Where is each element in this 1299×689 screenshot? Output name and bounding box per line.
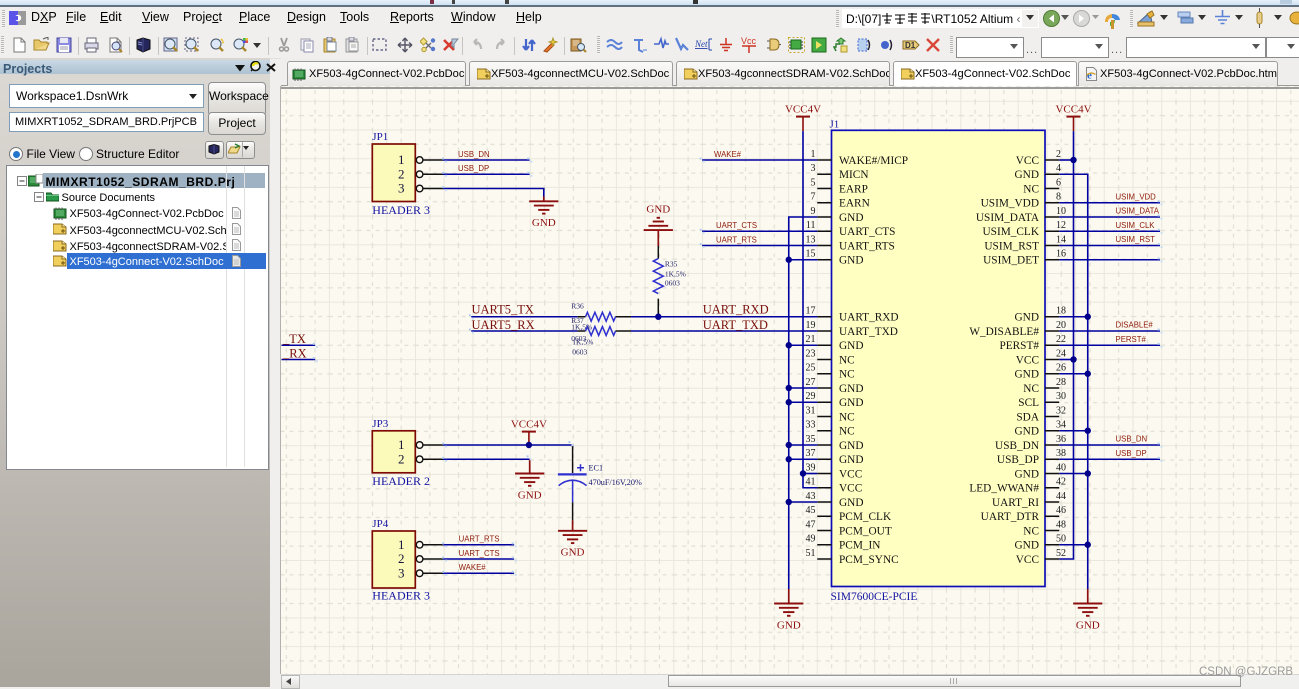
junction R35/UART_RXD	[655, 314, 661, 320]
pin 23 (NC) left stub	[806, 348, 855, 366]
svg-text:13: 13	[806, 234, 816, 245]
left panel	[0, 58, 270, 687]
svg-text:VCC: VCC	[1016, 554, 1039, 566]
wire left GND bus	[789, 217, 818, 589]
net label UART_RTS (JP4)	[459, 535, 500, 544]
wire GND pin row 19 to right bus	[1059, 430, 1088, 432]
wire PERST# (right row 13)	[1059, 344, 1160, 346]
svg-text:GND: GND	[839, 212, 863, 224]
wire UART_CTS (J1.11)	[702, 230, 817, 232]
net label UART_RXD	[703, 302, 769, 316]
pin 48 (NC) right stub	[1023, 519, 1066, 537]
pin 40 (GND) right stub	[1015, 462, 1066, 480]
svg-text:0603: 0603	[665, 279, 680, 288]
svg-text:GND: GND	[1015, 468, 1039, 480]
svg-text:GND: GND	[839, 497, 863, 509]
wire USIM_DET (right row 7)	[1059, 259, 1160, 261]
wire hotspot markers	[1031, 195, 1299, 613]
svg-text:VCC4V: VCC4V	[1055, 103, 1091, 115]
svg-text:USIM_VDD: USIM_VDD	[1116, 192, 1157, 201]
svg-text:MICN: MICN	[839, 169, 869, 181]
wire UART_RTS (J1.13)	[702, 245, 817, 247]
svg-text:NC: NC	[1023, 525, 1039, 537]
net label USIM_RST	[1116, 235, 1156, 244]
pin 28 (NC) right stub	[1023, 377, 1066, 395]
net label WAKE#	[714, 150, 742, 159]
wire JP3.1 to EC1	[443, 445, 573, 447]
svg-text:WAKE#: WAKE#	[459, 563, 487, 572]
svg-text:32: 32	[1056, 405, 1066, 416]
wire USIM_VDD (right row 3)	[1059, 202, 1160, 204]
svg-text:UART_RTS: UART_RTS	[716, 235, 757, 244]
pin 41 (VCC) left stub	[806, 477, 863, 495]
wire DISABLE# (right row 12)	[1059, 330, 1160, 332]
wire right VCC bus	[1059, 131, 1073, 559]
svg-text:48: 48	[1056, 519, 1066, 530]
pin 1 (WAKE#/MICP) left stub	[811, 149, 909, 167]
svg-text:2: 2	[1056, 149, 1061, 160]
horizontal scrollbar	[281, 674, 1299, 688]
net label USIM_CLK	[1116, 221, 1156, 230]
wire GND pin row 11 to right bus	[1059, 316, 1088, 318]
net label UART_TXD	[703, 318, 768, 332]
wire UART5_RX segment	[471, 330, 577, 332]
svg-text:UART_TXD: UART_TXD	[839, 326, 898, 338]
svg-text:1K,5%: 1K,5%	[572, 337, 593, 346]
svg-text:SCL: SCL	[1018, 397, 1039, 409]
pin 10 (USIM_DATA) right stub	[976, 206, 1066, 224]
net label RX cut label	[282, 346, 307, 360]
wire WAKE# (JP4.3)	[443, 572, 514, 574]
pin 3 of JP4	[398, 565, 443, 580]
ground GND (JP1)	[529, 201, 558, 229]
svg-text:_RX: _RX	[282, 346, 307, 360]
resistor R37	[577, 327, 631, 336]
svg-text:36: 36	[1056, 434, 1066, 445]
ground GND (EC1)	[558, 531, 587, 559]
pin 36 (USB_DN) right stub	[995, 434, 1066, 452]
connector JP1 body	[372, 144, 415, 202]
pin 1 of JP1	[398, 152, 443, 167]
svg-text:GND: GND	[1015, 369, 1039, 381]
wire GND pin row 13 to bus	[789, 344, 818, 346]
menu items	[31, 10, 57, 24]
resistor R35	[653, 246, 663, 317]
ground stem R35	[657, 230, 659, 246]
svg-text:43: 43	[806, 491, 816, 502]
svg-text:UART_RXD: UART_RXD	[839, 312, 899, 324]
pin 4 (GND) right stub	[1015, 163, 1061, 181]
svg-text:26: 26	[1056, 363, 1066, 374]
svg-text:46: 46	[1056, 505, 1066, 516]
pin 32 (SDA) right stub	[1016, 405, 1066, 423]
svg-text:21: 21	[806, 334, 816, 345]
svg-text:2: 2	[398, 166, 405, 181]
svg-text:UART_CTS: UART_CTS	[716, 221, 757, 230]
wire USB_DN (right row 20)	[1059, 444, 1160, 446]
pin 47 (PCM_OUT) left stub	[806, 519, 892, 537]
pin 19 (UART_TXD) left stub	[806, 320, 898, 338]
junction VCC4V/JP3.1	[526, 442, 532, 448]
wire GND pin row 7 to bus	[789, 259, 818, 261]
power port VCC4V (right) VCC4V	[1055, 103, 1091, 131]
power port VCC4V (JP3) VCC4V	[511, 418, 547, 445]
svg-text:33: 33	[806, 420, 816, 431]
svg-text:UART_RXD: UART_RXD	[703, 302, 769, 316]
value label SIM7600CE-PCIE	[831, 591, 918, 603]
pin 2 of JP3	[398, 451, 443, 466]
pin 18 (GND) right stub	[1015, 306, 1066, 324]
svg-text:UART_TXD: UART_TXD	[703, 318, 768, 332]
svg-text:GND: GND	[532, 217, 556, 229]
junction left GND bus row 13	[786, 342, 792, 348]
power port VCC4V (left) VCC4V	[785, 103, 821, 131]
svg-text:GND: GND	[1015, 312, 1039, 324]
svg-text:JP3: JP3	[372, 418, 388, 430]
wire UART5_TX stub at left edge	[282, 344, 316, 346]
svg-text:VCC: VCC	[839, 468, 862, 480]
svg-text:PCM_IN: PCM_IN	[839, 540, 880, 552]
pin 1 of JP3	[398, 437, 443, 452]
svg-text:30: 30	[1056, 391, 1066, 402]
tab bar	[281, 58, 1299, 86]
wire VCC pin 2 to bus	[1059, 159, 1073, 161]
svg-text:D1: D1	[905, 41, 916, 50]
pin 33 (NC) left stub	[806, 420, 855, 438]
svg-text:38: 38	[1056, 448, 1066, 459]
svg-text:1: 1	[811, 149, 816, 160]
pin 29 (GND) left stub	[806, 391, 864, 409]
pin 21 (GND) left stub	[806, 334, 864, 352]
wire JP1.3 to GND	[443, 189, 544, 197]
svg-text:1: 1	[398, 537, 405, 552]
svg-text:GND: GND	[646, 204, 670, 216]
wire USIM_RST (right row 6)	[1059, 245, 1160, 247]
svg-text:49: 49	[806, 534, 816, 545]
wire UART_TXD segment	[631, 330, 817, 332]
junction right GND bus row 22	[1085, 470, 1091, 476]
svg-text:GND: GND	[518, 489, 542, 501]
wire GND pin row 27 to right bus	[1059, 544, 1088, 546]
net label USB_DN	[1116, 435, 1148, 444]
svg-text:USB_DN: USB_DN	[995, 440, 1039, 452]
svg-text:NC: NC	[839, 411, 855, 423]
wire WAKE# (J1.1)	[702, 159, 817, 161]
wire USB_DP (JP1.2)	[443, 173, 530, 175]
pin 25 (NC) left stub	[806, 363, 855, 381]
svg-text:Vcc: Vcc	[741, 36, 757, 46]
svg-text:14: 14	[1056, 234, 1066, 245]
wire hotspot markers	[313, 158, 1163, 576]
wire right GND bus	[1059, 174, 1088, 589]
svg-text:R36: R36	[571, 302, 584, 311]
wire JP3.2 to GND	[443, 458, 530, 460]
svg-text:2: 2	[398, 551, 405, 566]
svg-text:44: 44	[1056, 491, 1066, 502]
R35 value labels	[665, 259, 686, 287]
svg-text:SDA: SDA	[1016, 411, 1039, 423]
svg-text:VCC4V: VCC4V	[511, 418, 547, 430]
value label HEADER 3	[372, 203, 430, 217]
svg-text:GND: GND	[561, 547, 585, 559]
svg-text:UART5_RX: UART5_RX	[472, 318, 535, 332]
pin 49 (PCM_IN) left stub	[806, 534, 881, 552]
svg-text:VCC: VCC	[1016, 354, 1039, 366]
svg-text:JP1: JP1	[372, 131, 388, 143]
EC1 labels	[589, 463, 642, 487]
svg-text:3: 3	[398, 565, 405, 580]
svg-text:GND: GND	[1015, 426, 1039, 438]
wire VCC pin 24 to bus	[1059, 359, 1073, 361]
svg-text:23: 23	[806, 348, 816, 359]
svg-text:18: 18	[1056, 306, 1066, 317]
svg-text:3: 3	[811, 163, 816, 174]
svg-text:UART5_TX: UART5_TX	[472, 302, 534, 316]
wire hotspot markers	[545, 195, 1299, 613]
svg-text:GND: GND	[839, 340, 863, 352]
svg-text:USB_DP: USB_DP	[458, 164, 489, 173]
svg-text:52: 52	[1056, 548, 1066, 559]
junction left GND bus row 24	[786, 499, 792, 505]
svg-text:GND: GND	[1015, 169, 1039, 181]
pin 12 (USIM_CLK) right stub	[983, 220, 1067, 238]
svg-text:1K,5%: 1K,5%	[571, 322, 592, 331]
svg-text:GND: GND	[777, 619, 801, 631]
svg-text:SIM7600CE-PCIE: SIM7600CE-PCIE	[831, 591, 918, 603]
svg-text:_TX: _TX	[282, 332, 306, 346]
svg-text:50: 50	[1056, 534, 1066, 545]
pin 30 (SCL) right stub	[1018, 391, 1066, 409]
svg-text:1: 1	[398, 152, 405, 167]
ground GND (bottom left)	[774, 604, 803, 632]
pin 8 (USIM_VDD) right stub	[981, 192, 1061, 210]
designator JP4	[372, 518, 388, 530]
svg-text:3: 3	[398, 181, 405, 196]
pin 38 (USB_DP) right stub	[997, 448, 1066, 466]
svg-text:40: 40	[1056, 462, 1066, 473]
wire GND pin row 22 to right bus	[1059, 473, 1088, 475]
svg-text:UART_CTS: UART_CTS	[839, 226, 895, 238]
svg-text:USIM_VDD: USIM_VDD	[981, 198, 1039, 210]
svg-text:USIM_RST: USIM_RST	[1116, 235, 1156, 244]
net label USB_DN	[458, 150, 490, 159]
net label UART_CTS (JP4)	[459, 549, 500, 558]
wire USB_DN (JP1.1)	[443, 159, 530, 161]
net label USIM_DATA	[1116, 207, 1160, 216]
wire UART5_TX segment	[471, 316, 577, 318]
junction left VCC bus pin39	[800, 470, 806, 476]
svg-text:GND: GND	[839, 383, 863, 395]
pin 22 (PERST#) right stub	[999, 334, 1066, 352]
pin 42 (LED_WWAN#) right stub	[969, 477, 1066, 495]
IC U/J1 SIM7600CE-PCIE body	[832, 130, 1046, 586]
svg-text:1K,5%: 1K,5%	[665, 269, 686, 278]
svg-text:EARN: EARN	[839, 198, 870, 210]
svg-text:35: 35	[806, 434, 816, 445]
pin 52 (VCC) right stub	[1016, 548, 1066, 566]
svg-text:PERST#: PERST#	[1116, 335, 1147, 344]
pin 3 (MICN) left stub	[811, 163, 869, 181]
pin 51 (PCM_SYNC) left stub	[806, 548, 899, 566]
pin 24 (VCC) right stub	[1016, 348, 1066, 366]
svg-text:5: 5	[811, 177, 816, 188]
svg-text:PERST#: PERST#	[999, 340, 1039, 352]
svg-text:PCM_SYNC: PCM_SYNC	[839, 554, 899, 566]
pin 7 (EARN) left stub	[811, 192, 870, 210]
ground stem bottom-right	[1087, 589, 1089, 604]
svg-text:VCC4V: VCC4V	[785, 103, 821, 115]
pin 1 of JP4	[398, 537, 443, 552]
svg-text:4: 4	[1056, 163, 1061, 174]
svg-text:GND: GND	[1015, 540, 1039, 552]
svg-text:27: 27	[806, 377, 816, 388]
svg-text:25: 25	[806, 363, 816, 374]
wire GND pin row 16 to bus	[789, 387, 818, 389]
pin 27 (GND) left stub	[806, 377, 864, 395]
pin 11 (UART_CTS) left stub	[806, 220, 896, 238]
svg-text:PCM_OUT: PCM_OUT	[839, 525, 892, 537]
wire GND pin row 24 to bus	[789, 501, 818, 503]
svg-text:HEADER 2: HEADER 2	[372, 474, 430, 488]
wire UART5_RX stub at left edge	[282, 359, 316, 361]
net label UART5_RX	[472, 318, 535, 332]
svg-text:GND: GND	[839, 255, 863, 267]
ground stem EC1	[572, 520, 574, 530]
svg-text:17: 17	[806, 306, 816, 317]
svg-text:GND: GND	[839, 440, 863, 452]
svg-text:USIM_RST: USIM_RST	[984, 240, 1039, 252]
svg-text:470uF/16V,20%: 470uF/16V,20%	[589, 478, 642, 487]
svg-text:DISABLE#: DISABLE#	[1116, 321, 1154, 330]
junction right GND bus row 19	[1085, 428, 1091, 434]
junction left GND bus row 7	[786, 257, 792, 263]
svg-text:USIM_DATA: USIM_DATA	[1116, 207, 1160, 216]
svg-text:16: 16	[1056, 249, 1066, 260]
wire USIM_CLK (right row 5)	[1059, 230, 1160, 232]
pin 9 (GND) left stub	[811, 206, 864, 224]
wire UART_RXD segment	[631, 316, 817, 318]
pin 26 (GND) right stub	[1015, 363, 1066, 381]
pin 2 of JP1	[398, 166, 443, 181]
ground stem JP1	[543, 197, 545, 202]
svg-text:J1: J1	[830, 119, 840, 131]
svg-text:22: 22	[1056, 334, 1066, 345]
net label USB_DP	[1116, 449, 1147, 458]
svg-text:NC: NC	[839, 369, 855, 381]
pin 16 (USIM_DET) right stub	[983, 249, 1066, 267]
pin 2 (VCC) right stub	[1016, 149, 1061, 167]
svg-text:UART_DTR: UART_DTR	[981, 511, 1040, 523]
svg-text:HEADER 3: HEADER 3	[372, 589, 430, 603]
svg-text:29: 29	[806, 391, 816, 402]
junction left GND bus row 21	[786, 456, 792, 462]
net label TX cut label	[282, 332, 306, 346]
wire GND pin row 21 to bus	[789, 458, 818, 460]
pin 20 (W_DISABLE#) right stub	[969, 320, 1066, 338]
pin 17 (UART_RXD) left stub	[806, 306, 899, 324]
svg-text:VCC: VCC	[839, 483, 862, 495]
svg-text:e: e	[1087, 70, 1092, 82]
connector JP4 body	[372, 531, 415, 588]
svg-text:6: 6	[1056, 177, 1061, 188]
svg-text:UART_RTS: UART_RTS	[839, 240, 895, 252]
value label HEADER 2	[372, 474, 430, 488]
svg-text:NC: NC	[1023, 383, 1039, 395]
pin 15 (GND) left stub	[806, 249, 864, 267]
resistor R36	[577, 312, 631, 321]
svg-text:NC: NC	[1023, 183, 1039, 195]
wire UART_RTS (JP4.1)	[443, 544, 514, 546]
net label UART5_TX	[472, 302, 534, 316]
svg-text:USIM_DET: USIM_DET	[983, 255, 1039, 267]
schematic canvas	[281, 86, 1299, 674]
net label WAKE# (JP4)	[459, 563, 487, 572]
wire USIM_DATA (right row 4)	[1059, 216, 1160, 218]
ground stem bottom-left	[788, 589, 790, 604]
pin 5 (EARP) left stub	[811, 177, 868, 195]
svg-text:USB_DN: USB_DN	[458, 150, 490, 159]
wire GND pin row 17 to bus	[789, 401, 818, 403]
svg-text:HEADER 3: HEADER 3	[372, 203, 430, 217]
wire GND pin row 15 to right bus	[1059, 373, 1088, 375]
pin 37 (GND) left stub	[806, 448, 864, 466]
designator J1	[830, 119, 840, 131]
junction right GND bus row 15	[1085, 371, 1091, 377]
svg-text:1: 1	[398, 437, 405, 452]
svg-text:41: 41	[806, 477, 816, 488]
pin 46 (UART_DTR) right stub	[981, 505, 1066, 523]
ground GND (JP3)	[515, 474, 544, 502]
svg-text:PCM_CLK: PCM_CLK	[839, 511, 892, 523]
net label PERST#	[1116, 335, 1147, 344]
junction left GND bus row 20	[786, 442, 792, 448]
svg-text:WAKE#: WAKE#	[714, 150, 742, 159]
junction right VCC bus pin2	[1070, 157, 1076, 163]
designator JP3	[372, 418, 388, 430]
svg-text:0603: 0603	[572, 348, 587, 357]
svg-text:15: 15	[806, 249, 816, 260]
svg-text:Net: Net	[695, 39, 708, 49]
pin 34 (GND) right stub	[1015, 420, 1066, 438]
svg-text:34: 34	[1056, 420, 1066, 431]
connector JP3 body	[372, 431, 415, 473]
svg-text:EC1: EC1	[589, 463, 604, 472]
svg-text:42: 42	[1056, 477, 1066, 488]
net label USB_DP	[458, 164, 489, 173]
net label UART_CTS	[716, 221, 757, 230]
pin 14 (USIM_RST) right stub	[984, 234, 1066, 252]
junction right VCC bus pin24	[1070, 356, 1076, 362]
pin 50 (GND) right stub	[1015, 534, 1066, 552]
svg-text:19: 19	[806, 320, 816, 331]
ground GND (above R35)	[644, 204, 673, 231]
svg-text:LED_WWAN#: LED_WWAN#	[969, 483, 1039, 495]
pin 45 (PCM_CLK) left stub	[806, 505, 892, 523]
wire UART_CTS (JP4.2)	[443, 558, 514, 560]
net label DISABLE#	[1116, 321, 1154, 330]
pin 43 (GND) left stub	[806, 491, 864, 509]
pin 39 (VCC) left stub	[806, 462, 863, 480]
svg-text:NC: NC	[839, 426, 855, 438]
svg-text:39: 39	[806, 462, 816, 473]
svg-text:USIM_CLK: USIM_CLK	[983, 226, 1040, 238]
junction left GND bus row 17	[786, 399, 792, 405]
wire VCC pin 39 to bus	[803, 473, 817, 475]
svg-text:51: 51	[806, 548, 816, 559]
designator JP1	[372, 131, 388, 143]
wire GND pin row 20 to bus	[789, 444, 818, 446]
pin 35 (GND) left stub	[806, 434, 864, 452]
